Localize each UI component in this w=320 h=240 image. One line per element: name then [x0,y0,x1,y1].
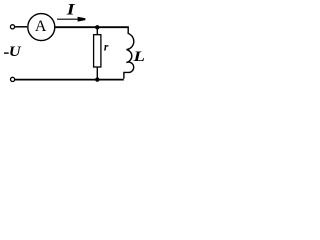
svg-text:A: A [35,18,47,35]
wire terminal to ammeter [15,26,27,28]
resistor bottom lead [96,67,98,79]
terminal (bottom-left) [11,77,15,81]
inductor L coil [124,26,134,78]
resistor top lead [96,28,98,35]
label -U [4,52,9,54]
svg-text:I: I [66,1,76,18]
svg-text:L: L [132,48,145,64]
ammeter A1 circle [28,14,55,41]
terminal (top-left input) [10,25,14,29]
svg-text:U: U [9,44,22,60]
bottom wire [15,79,124,81]
current arrow I [57,18,79,20]
svg-text:r: r [104,42,109,54]
background [0,0,148,89]
junction node bottom [95,77,99,81]
resistor r body [94,35,101,67]
wire ammeter to coil corner (top rail) [55,26,128,28]
junction node top [95,25,99,29]
